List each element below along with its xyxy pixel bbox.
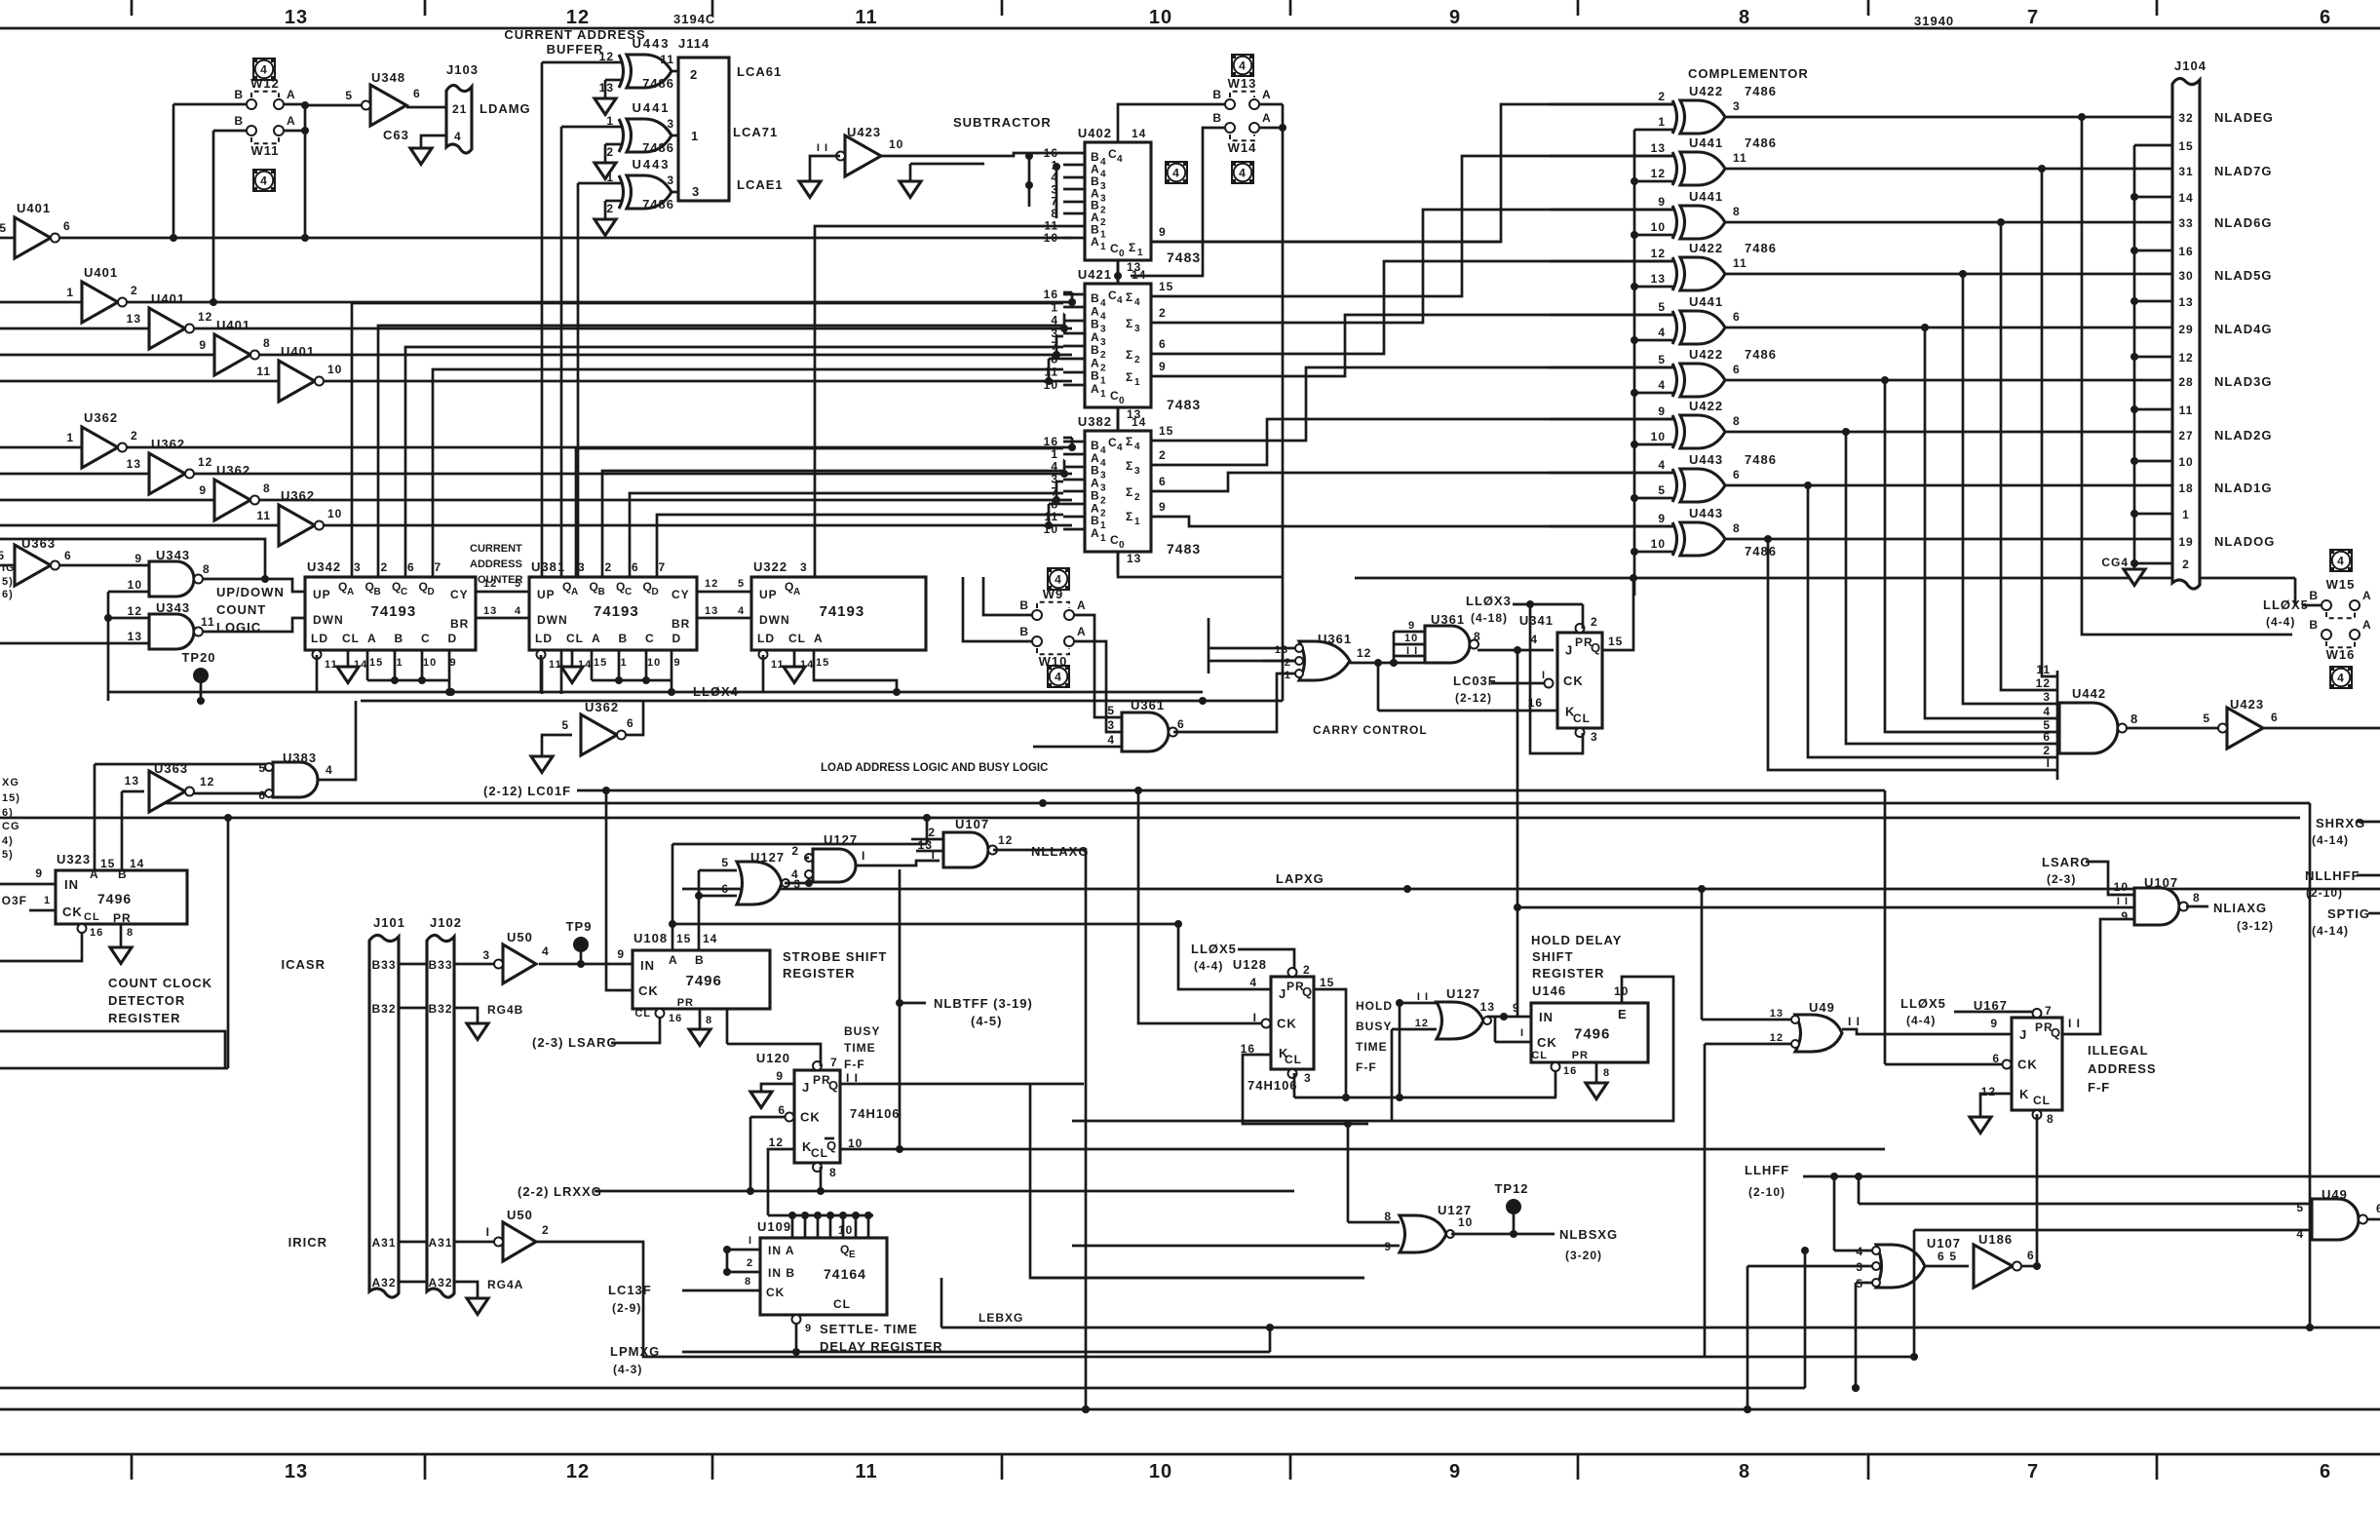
svg-text:CL: CL	[2033, 1094, 2051, 1107]
svg-text:2: 2	[1159, 448, 1167, 462]
XOR gate U441 complementor row 228	[1680, 206, 1725, 239]
svg-text:1: 1	[66, 286, 74, 299]
svg-text:Q: Q	[1591, 640, 1601, 655]
IC U342 74193 counter	[305, 577, 476, 650]
wire right loop vertical	[2309, 803, 2312, 1328]
wire U383 feed A	[94, 764, 96, 870]
wire U49a out to U167 J	[1842, 1029, 2012, 1034]
svg-text:I I: I I	[1406, 645, 1418, 657]
svg-text:11: 11	[325, 659, 338, 671]
svg-text:4: 4	[542, 944, 550, 958]
wire row jog into adder pin	[1048, 359, 1051, 381]
svg-text:74164: 74164	[824, 1266, 866, 1282]
wire U120 Qbar out	[840, 1148, 1885, 1151]
svg-text:0: 0	[1119, 249, 1126, 259]
svg-text:8: 8	[706, 1015, 712, 1026]
svg-text:12: 12	[1651, 167, 1666, 180]
svg-text:0: 0	[1119, 540, 1126, 551]
svg-text:B32: B32	[371, 1002, 396, 1016]
svg-text:12: 12	[566, 1461, 590, 1482]
svg-text:2: 2	[1100, 508, 1107, 519]
wire A32 J101-J102	[399, 1281, 427, 1284]
svg-text:29: 29	[2178, 323, 2193, 336]
svg-text:6): 6)	[2, 589, 14, 600]
wire U382 C0-13 down	[1118, 552, 1283, 577]
svg-text:U401: U401	[17, 201, 51, 215]
svg-text:Q: Q	[2051, 1025, 2061, 1040]
wire LLOX3	[1513, 603, 1583, 606]
svg-text:12: 12	[998, 833, 1013, 847]
svg-text:8: 8	[1384, 1210, 1392, 1223]
wire U402-14 up to W13-B	[1118, 104, 1224, 125]
svg-text:(4-14): (4-14)	[2312, 924, 2349, 938]
junction complement control	[1631, 283, 1638, 290]
svg-text:U323: U323	[57, 852, 91, 866]
inverter U401 row y=337	[0, 327, 149, 330]
wire U108 B up	[698, 870, 701, 950]
svg-text:A: A	[814, 632, 824, 645]
wire left loop vertical	[227, 818, 230, 1068]
svg-text:1: 1	[1134, 517, 1141, 527]
svg-text:13: 13	[483, 605, 497, 617]
svg-text:SPTIG: SPTIG	[2327, 906, 2370, 921]
svg-text:5: 5	[2043, 718, 2051, 732]
svg-text:9: 9	[1159, 500, 1167, 514]
svg-text:13: 13	[2178, 295, 2193, 309]
wire row jog into adder pin	[1056, 481, 1058, 500]
svg-text:3194C: 3194C	[673, 12, 715, 26]
svg-text:11: 11	[256, 509, 271, 522]
svg-text:(4-3): (4-3)	[613, 1363, 642, 1376]
svg-text:J103: J103	[446, 62, 479, 77]
svg-text:2: 2	[605, 560, 613, 574]
box 4 above W12	[253, 58, 275, 80]
svg-text:HOLD DELAY: HOLD DELAY	[1531, 933, 1622, 947]
wire U167 Q out	[2062, 919, 2134, 1034]
svg-text:8: 8	[1603, 1067, 1610, 1079]
wire vertical complementor to U442	[1846, 432, 2057, 744]
connector J114	[678, 58, 729, 201]
wire row into U343-13	[0, 642, 149, 645]
svg-text:2: 2	[1591, 615, 1598, 629]
inverter U401 row y=364	[0, 354, 214, 357]
wire W12-B to vertical	[173, 103, 247, 106]
svg-text:CY: CY	[450, 588, 469, 601]
svg-text:4: 4	[738, 605, 745, 617]
svg-text:74193: 74193	[371, 603, 417, 620]
svg-text:U341: U341	[1519, 613, 1554, 628]
svg-text:U50: U50	[507, 930, 533, 944]
wire U127d in11	[1400, 1002, 1437, 1005]
svg-text:Σ: Σ	[1126, 370, 1133, 384]
svg-text:(4-14): (4-14)	[2312, 833, 2349, 847]
svg-text:31: 31	[2178, 165, 2193, 178]
svg-text:18: 18	[2178, 481, 2193, 495]
svg-text:4: 4	[1100, 311, 1107, 322]
svg-text:LCA61: LCA61	[737, 64, 782, 79]
IC U421 7483 adder	[1085, 284, 1151, 407]
svg-text:B: B	[1212, 111, 1222, 125]
bus y=1392	[1072, 1356, 1914, 1359]
wire U423 in stub	[810, 156, 840, 181]
inverter U362 row y=459	[0, 446, 82, 449]
svg-text:BR: BR	[450, 617, 469, 631]
wire row jog into adder pin	[1063, 460, 1066, 474]
svg-text:10: 10	[2114, 880, 2129, 894]
wire vertical buffer feed 2	[560, 127, 563, 694]
wire vertical complementor to U442	[1963, 274, 2057, 704]
svg-text:1: 1	[44, 895, 51, 906]
svg-text:U401: U401	[281, 344, 315, 359]
svg-text:7: 7	[830, 1056, 838, 1069]
svg-text:6: 6	[63, 219, 71, 233]
frame bottom border with zone ticks	[0, 1453, 2380, 1456]
svg-text:U382: U382	[1078, 414, 1112, 429]
svg-text:LOGIC: LOGIC	[216, 620, 261, 635]
svg-text:4: 4	[454, 130, 462, 143]
svg-text:11: 11	[549, 659, 562, 671]
svg-text:4: 4	[1117, 443, 1124, 453]
inverter U362 row y=539	[0, 524, 279, 527]
svg-text:13: 13	[1651, 272, 1666, 286]
svg-text:RG4A: RG4A	[487, 1278, 523, 1291]
svg-text:C: C	[645, 632, 655, 645]
svg-text:10: 10	[1651, 537, 1666, 551]
svg-text:2: 2	[1100, 495, 1107, 506]
wire W11-A to node	[284, 130, 305, 133]
svg-text:(4-4): (4-4)	[1194, 959, 1223, 973]
svg-text:A: A	[1091, 235, 1100, 249]
svg-text:8: 8	[1733, 414, 1741, 428]
svg-text:1: 1	[1285, 670, 1291, 681]
svg-text:B: B	[1091, 369, 1100, 383]
wire adder sum to complementor	[1151, 210, 1672, 323]
connector J101	[369, 935, 399, 1297]
svg-text:2: 2	[1134, 355, 1141, 366]
svg-text:IRICR: IRICR	[288, 1235, 327, 1250]
svg-text:CG4: CG4	[2101, 556, 2129, 569]
svg-text:7496: 7496	[97, 891, 132, 906]
inverter U50 lower	[503, 1222, 536, 1261]
svg-text:IN A: IN A	[768, 1244, 795, 1257]
IC U402 7483 adder	[1085, 142, 1151, 260]
wire U127d in12	[1392, 1028, 1437, 1031]
buffer U348	[370, 85, 406, 126]
svg-text:6: 6	[632, 560, 639, 574]
wire complementor output row y=120	[1725, 116, 2172, 119]
wire W14-A right	[1259, 127, 1283, 130]
svg-text:7486: 7486	[642, 76, 674, 91]
wire U342 Q column to U421 A pin	[378, 326, 1063, 577]
ground at J103	[410, 148, 432, 165]
svg-text:NLBSXG: NLBSXG	[1559, 1227, 1618, 1242]
svg-text:LCAE1: LCAE1	[737, 177, 784, 192]
svg-text:9: 9	[1159, 225, 1167, 239]
wire U128 K loop	[1243, 1055, 1368, 1124]
svg-text:13: 13	[128, 630, 142, 643]
svg-text:9: 9	[450, 657, 457, 669]
svg-text:REGISTER: REGISTER	[108, 1011, 180, 1025]
wire U127a in5	[699, 869, 737, 872]
svg-text:U361: U361	[1131, 698, 1165, 712]
svg-text:4: 4	[2337, 555, 2345, 568]
wire W10-A down to U361 in3	[1074, 641, 1122, 732]
svg-text:W15: W15	[2326, 577, 2356, 592]
svg-text:U127: U127	[750, 850, 785, 865]
IC U381 74193 counter	[529, 577, 697, 650]
svg-text:2: 2	[1303, 963, 1311, 977]
wire adder sum to complementor	[1151, 473, 1672, 491]
wire B32 J101-J102	[399, 1007, 427, 1010]
wire U108 IN row	[539, 963, 633, 966]
svg-text:REGISTER: REGISTER	[783, 966, 855, 981]
svg-text:12: 12	[483, 578, 497, 590]
svg-text:6: 6	[2320, 1461, 2331, 1482]
svg-text:E: E	[1618, 1007, 1628, 1021]
buffer U423 right	[2227, 708, 2263, 749]
svg-text:5: 5	[345, 89, 353, 102]
svg-text:3: 3	[1304, 1071, 1312, 1085]
svg-text:15: 15	[1159, 424, 1173, 438]
svg-text:COUNT: COUNT	[216, 602, 266, 617]
wire U49b out	[2367, 1218, 2380, 1221]
svg-text:XG: XG	[2, 777, 19, 789]
svg-text:4: 4	[1100, 169, 1107, 179]
wire U50b out	[536, 1242, 1072, 1357]
svg-text:ADDRESS: ADDRESS	[2088, 1061, 2157, 1076]
svg-text:2: 2	[1285, 657, 1291, 669]
wire adder sum to complementor	[1151, 261, 1672, 354]
wire into U323 IN	[0, 883, 56, 886]
wire U342 Q column to U421 A pin	[405, 347, 1063, 577]
svg-text:W11: W11	[250, 143, 279, 158]
svg-text:12: 12	[2036, 676, 2051, 690]
svg-text:7483: 7483	[1167, 397, 1201, 412]
svg-text:B: B	[234, 114, 244, 128]
svg-text:Σ: Σ	[1129, 241, 1136, 254]
svg-text:6: 6	[64, 549, 72, 562]
svg-text:U401: U401	[151, 291, 185, 306]
wire U381 CY to U322 UP	[697, 591, 751, 594]
svg-text:U343: U343	[156, 600, 190, 615]
svg-text:LLØX5: LLØX5	[2263, 597, 2309, 612]
svg-text:4: 4	[1658, 326, 1666, 339]
svg-text:15: 15	[676, 932, 691, 945]
junction complement control	[1631, 389, 1638, 397]
svg-text:U128: U128	[1233, 957, 1267, 972]
svg-text:ADDRESS: ADDRESS	[470, 558, 522, 570]
svg-text:2: 2	[131, 429, 138, 443]
svg-text:6: 6	[413, 87, 421, 100]
svg-text:A: A	[669, 953, 678, 967]
wire U120 CL stem	[820, 1167, 823, 1191]
wire U402 C0-13 to U421-14	[1117, 260, 1120, 284]
wire U361-6 out	[1173, 674, 1299, 732]
wire U107c in5	[1856, 1282, 1872, 1285]
wire U109 verticals	[726, 1250, 729, 1272]
wire A-net to U348	[305, 104, 362, 107]
svg-text:NLADEG: NLADEG	[2214, 110, 2274, 125]
svg-text:U442: U442	[2072, 686, 2106, 701]
svg-text:U441: U441	[632, 100, 670, 115]
wire U49b in4	[1914, 1229, 2312, 1232]
svg-text:16: 16	[669, 1013, 682, 1024]
svg-text:2: 2	[131, 284, 138, 297]
svg-text:6: 6	[1938, 1250, 1945, 1263]
wire W11-B left	[213, 130, 247, 133]
wire LSARG to U107b	[2086, 862, 2134, 895]
wire U442 out to U423	[2127, 727, 2222, 730]
NAND U343 lower	[149, 614, 194, 649]
svg-text:6: 6	[407, 560, 415, 574]
svg-text:12: 12	[1981, 1085, 1996, 1098]
svg-text:7496: 7496	[1574, 1026, 1610, 1043]
wire U343-10 input	[108, 591, 149, 594]
junction complement control	[1631, 494, 1638, 502]
svg-text:Σ: Σ	[1126, 510, 1133, 523]
svg-text:4: 4	[326, 763, 333, 777]
svg-text:CL: CL	[84, 911, 100, 923]
wire row into U363	[0, 564, 15, 567]
wire U342 Q column to U421 A pin	[433, 369, 1063, 577]
svg-text:BR: BR	[672, 617, 690, 631]
wire U323 CL to left	[0, 933, 82, 961]
inverter U401 row y=391	[0, 380, 279, 383]
svg-text:TIME: TIME	[1356, 1040, 1388, 1054]
svg-text:14: 14	[2178, 191, 2193, 205]
svg-text:I I: I I	[1848, 1015, 1861, 1028]
wire vertical complementor to U442	[1808, 485, 2057, 757]
svg-text:J: J	[802, 1080, 810, 1095]
XOR gate U422 complementor row 443	[1680, 415, 1725, 448]
wire U146 CK tie	[1494, 1017, 1497, 1042]
svg-text:9: 9	[199, 338, 207, 352]
svg-text:3: 3	[1733, 99, 1741, 113]
svg-text:8: 8	[745, 1276, 751, 1288]
U146 CL bubble	[1552, 1062, 1560, 1071]
wire row jog into adder pin	[1056, 336, 1058, 355]
svg-text:6: 6	[1159, 475, 1167, 488]
svg-text:W12: W12	[250, 76, 280, 91]
svg-text:A: A	[793, 587, 801, 597]
inverter U401 row y=310	[0, 301, 82, 304]
svg-text:74193: 74193	[594, 603, 639, 620]
ground RG4A	[467, 1298, 488, 1315]
svg-text:NLAD7G: NLAD7G	[2214, 164, 2272, 178]
svg-text:15: 15	[1159, 280, 1173, 293]
svg-text:CK: CK	[1563, 674, 1584, 688]
U108 CL bubble	[656, 1009, 665, 1018]
svg-text:3: 3	[1134, 324, 1141, 334]
buffer U423 subtractor	[845, 135, 881, 176]
svg-text:9: 9	[1658, 195, 1666, 209]
svg-text:(4-4): (4-4)	[1906, 1014, 1936, 1027]
svg-text:27: 27	[2178, 429, 2193, 443]
svg-text:15: 15	[1320, 976, 1334, 989]
inverter U362 row y=513	[0, 499, 214, 502]
svg-text:12: 12	[705, 578, 718, 590]
NOR U361 carry	[1299, 641, 1350, 680]
svg-text:CURRENT ADDRESS: CURRENT ADDRESS	[504, 27, 645, 42]
wire U49b in5	[1859, 1203, 2312, 1206]
svg-text:9: 9	[2121, 909, 2129, 923]
svg-text:CARRY CONTROL: CARRY CONTROL	[1313, 723, 1428, 737]
svg-text:8: 8	[127, 927, 134, 939]
svg-text:U348: U348	[371, 70, 405, 85]
svg-text:10: 10	[423, 657, 437, 669]
svg-text:2: 2	[791, 844, 799, 858]
svg-text:LD: LD	[535, 632, 553, 645]
svg-text:U402: U402	[1078, 126, 1112, 140]
svg-text:U120: U120	[756, 1051, 790, 1065]
IC U109 74164	[760, 1238, 887, 1315]
wire U120 PR loop	[727, 1044, 821, 1066]
svg-text:(4-18): (4-18)	[1471, 611, 1508, 625]
svg-text:6: 6	[1733, 310, 1741, 324]
wire U107a in13	[916, 850, 943, 853]
svg-text:5: 5	[561, 718, 569, 732]
svg-text:B: B	[695, 953, 705, 967]
svg-text:SETTLE- TIME: SETTLE- TIME	[820, 1322, 918, 1336]
wire U341 K	[1378, 710, 1557, 712]
wire U120 K	[768, 1149, 794, 1215]
svg-text:74H106: 74H106	[1248, 1078, 1298, 1093]
svg-text:5: 5	[721, 856, 729, 869]
wire row jog into adder pin	[1048, 504, 1051, 525]
svg-text:U50: U50	[507, 1208, 533, 1222]
wire U128 Q out	[1314, 989, 1346, 1097]
wire LSARG to U108 CL	[611, 1018, 660, 1043]
wire complementor output row y=228	[1725, 221, 2172, 224]
svg-text:U362: U362	[585, 700, 619, 714]
jumper W16	[2322, 630, 2331, 639]
svg-text:I I: I I	[817, 142, 828, 154]
wire U107b in11	[1517, 906, 2134, 909]
svg-text:J: J	[1279, 986, 1286, 1001]
junction complement control	[1631, 231, 1638, 239]
svg-text:12: 12	[198, 310, 212, 324]
AND gate U383	[273, 762, 318, 797]
svg-text:A: A	[1091, 526, 1100, 540]
svg-text:TP12: TP12	[1494, 1181, 1528, 1196]
svg-text:LLØX5: LLØX5	[1900, 996, 1946, 1011]
ground RG4B	[467, 1023, 488, 1040]
svg-text:6: 6	[2043, 730, 2051, 744]
svg-text:B: B	[598, 587, 606, 597]
wires U322 bottom pins	[762, 655, 765, 692]
svg-text:14: 14	[1132, 415, 1146, 429]
svg-text:U441: U441	[1689, 189, 1723, 204]
svg-text:A32: A32	[428, 1276, 452, 1290]
svg-text:13: 13	[127, 312, 141, 326]
svg-text:15: 15	[1608, 635, 1623, 648]
svg-text:6: 6	[1733, 363, 1741, 376]
svg-text:U441: U441	[1689, 294, 1723, 309]
svg-text:NLAD2G: NLAD2G	[2214, 428, 2272, 443]
svg-text:5: 5	[0, 549, 5, 562]
wire row jog into adder pin	[1063, 314, 1066, 328]
box 4 below W16	[2330, 667, 2352, 688]
svg-text:8: 8	[1733, 521, 1741, 535]
svg-text:13: 13	[1770, 1008, 1784, 1020]
wire U127c in9	[1072, 1245, 1400, 1248]
XOR gate U443 complementor row 553	[1680, 522, 1725, 556]
svg-text:RG4B: RG4B	[487, 1003, 523, 1017]
svg-text:10: 10	[889, 137, 903, 151]
svg-text:13: 13	[285, 1461, 308, 1482]
svg-text:4: 4	[1100, 458, 1107, 469]
wire adder sum to complementor	[1151, 367, 1672, 441]
